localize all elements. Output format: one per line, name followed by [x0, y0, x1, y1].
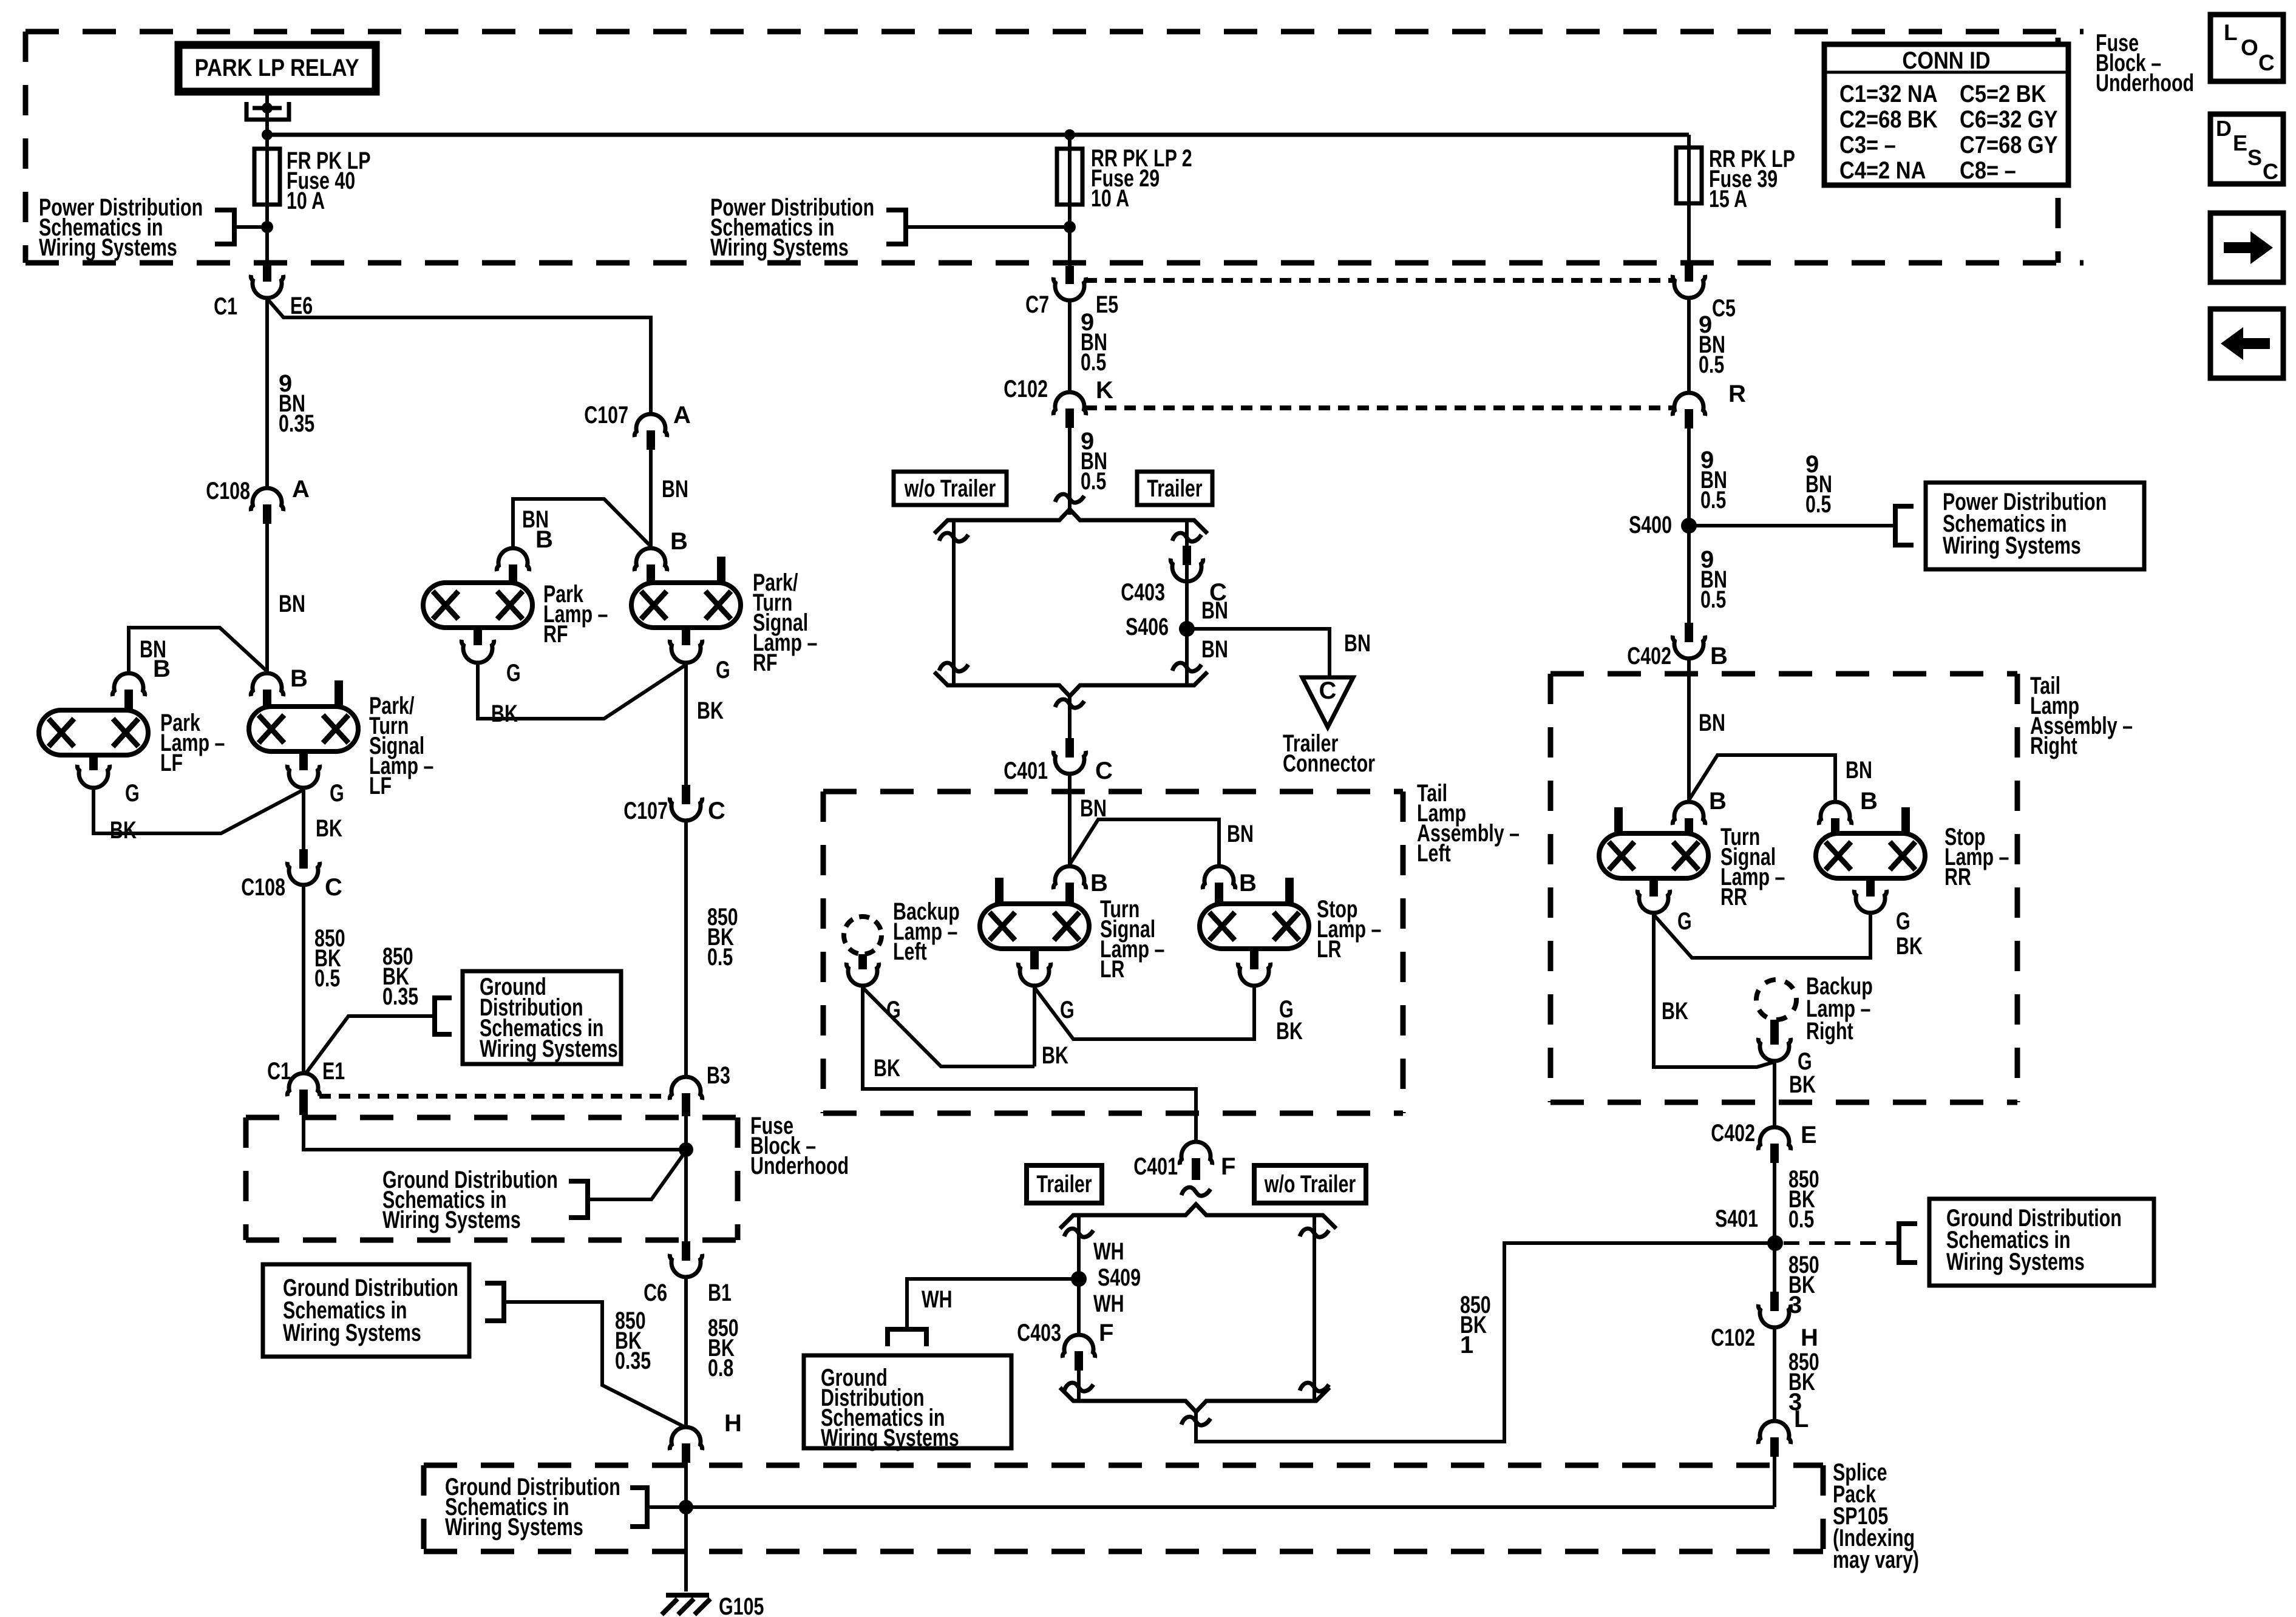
svg-text:C401: C401: [1133, 1153, 1178, 1180]
wire C6B1 down: [684, 1278, 688, 1425]
bracket to power distribution 1: [215, 210, 234, 244]
svg-text:0.35: 0.35: [279, 410, 314, 437]
svg-text:G: G: [1896, 908, 1911, 935]
svg-text:0.5: 0.5: [707, 944, 733, 971]
connector B park-turn-LF: [251, 673, 283, 707]
connector C401 F: [1180, 1142, 1212, 1180]
lamp park/turn signal LF: [249, 680, 358, 770]
label WH (below S409): [1093, 1290, 1124, 1317]
svg-text:E1: E1: [322, 1058, 345, 1085]
svg-text:Wiring Systems: Wiring Systems: [39, 234, 177, 261]
svg-text:w/o Trailer: w/o Trailer: [1264, 1171, 1356, 1198]
label C402-E: [1711, 1120, 1816, 1148]
svg-text:Wiring Systems: Wiring Systems: [480, 1036, 618, 1062]
svg-text:WH: WH: [922, 1286, 953, 1313]
label 9 BN 0.5 (below K): [1081, 428, 1107, 495]
connector C102 pin H: [1758, 1292, 1790, 1327]
label 9 BN 0.5 (below S400): [1700, 546, 1727, 613]
lamp park RF: [423, 583, 532, 645]
svg-text:A: A: [292, 476, 310, 503]
svg-text:C6=32 GY: C6=32 GY: [1960, 106, 2058, 133]
label BK (park RF): [491, 700, 518, 727]
wire C102H down: [1773, 1328, 1776, 1419]
svg-text:BK: BK: [491, 700, 518, 727]
label ground distribution 3: [382, 1167, 558, 1233]
svg-text:H: H: [724, 1410, 742, 1437]
svg-text:Left: Left: [893, 938, 927, 965]
label C403-C: [1121, 579, 1227, 606]
brace merge bottom 1: [934, 672, 1207, 696]
bracket to ground distribution box 2: [435, 998, 452, 1034]
label G (turn LR): [1060, 997, 1075, 1023]
label 850 BK 0.5 (C108-C): [314, 925, 345, 992]
wire bracket4 to H connector: [504, 1302, 686, 1428]
svg-text:BK: BK: [1276, 1018, 1303, 1045]
label splice pack SP105: [1833, 1459, 1919, 1573]
svg-text:LF: LF: [369, 773, 392, 799]
wire park-LF ground jog: [93, 790, 304, 833]
svg-text:0.5: 0.5: [1700, 586, 1726, 613]
svg-text:C5: C5: [1712, 295, 1736, 322]
label G (turn RR): [1677, 908, 1692, 935]
brace merge bottom 2: [1060, 1388, 1330, 1412]
connector G park/turn-RF: [670, 640, 702, 663]
svg-text:E6: E6: [290, 293, 313, 319]
svg-text:Wiring Systems: Wiring Systems: [821, 1425, 959, 1451]
svg-text:RR: RR: [1944, 864, 1971, 890]
svg-text:0.5: 0.5: [314, 965, 340, 992]
wire C401C down: [1068, 775, 1072, 864]
bracket to ground distribution (S401): [1899, 1224, 1917, 1263]
svg-text:B: B: [535, 526, 553, 553]
wire turn-RR G down to backup: [1654, 915, 1773, 1067]
ground distribution box (S409): [804, 1355, 1011, 1451]
connector G stop-LR: [1238, 949, 1270, 986]
svg-text:D: D: [2216, 116, 2232, 141]
icon DESC: [2210, 114, 2283, 184]
svg-text:10 A: 10 A: [287, 188, 325, 214]
node S406: [1179, 621, 1195, 637]
ground distribution box (S401): [1929, 1199, 2154, 1286]
lamp stop LR: [1200, 878, 1309, 949]
svg-text:RF: RF: [753, 649, 778, 676]
label BK (stop RR): [1896, 933, 1923, 960]
label 9 BN 0.5 (C7): [1081, 309, 1107, 376]
svg-text:BK: BK: [316, 815, 342, 842]
label S400: [1629, 512, 1672, 538]
svg-text:S406: S406: [1126, 614, 1169, 640]
label backup lamp left: [893, 898, 960, 965]
label C7-E5: [1025, 291, 1118, 318]
dashed wire S401 to bracket: [1784, 1241, 1899, 1245]
squiggle trailer-branch bottom: [1064, 1383, 1093, 1391]
label BN-B (park LF): [140, 636, 171, 682]
svg-text:B: B: [1860, 788, 1878, 815]
label G105: [719, 1593, 764, 1617]
svg-text:S: S: [2247, 145, 2262, 170]
connector C108 A: [251, 488, 283, 524]
svg-text:S409: S409: [1098, 1264, 1141, 1291]
svg-text:0.35: 0.35: [615, 1347, 651, 1374]
label BK (park/turn RF): [697, 697, 724, 724]
label turn signal lamp LR: [1100, 896, 1164, 983]
svg-text:G: G: [716, 657, 730, 683]
label C102-H: [1711, 1324, 1818, 1351]
wire park/turn-RF ground down: [684, 665, 688, 785]
svg-text:RR: RR: [1720, 884, 1747, 910]
svg-text:LF: LF: [160, 750, 183, 776]
wire backup-right ground: [1773, 1063, 1776, 1125]
svg-text:B1: B1: [708, 1280, 732, 1306]
label tail lamp assembly right: [2030, 673, 2133, 759]
relay contact symbol: [246, 102, 289, 120]
wire trailer branch (S409): [1077, 1215, 1081, 1333]
svg-text:Underhood: Underhood: [2096, 70, 2194, 97]
svg-text:10 A: 10 A: [1091, 185, 1129, 212]
wire backup-left diag to turn-G column: [863, 988, 1034, 1066]
connector C5 pin: [1673, 263, 1705, 298]
svg-text:Connector: Connector: [1283, 750, 1375, 777]
svg-text:C107: C107: [584, 402, 628, 429]
wire S409 to ground bracket: [907, 1279, 1079, 1327]
wire L to splice run: [1773, 1457, 1776, 1507]
svg-text:RF: RF: [543, 621, 568, 648]
wire BN jog to stop lamp LR: [1070, 819, 1219, 864]
svg-text:BK: BK: [1662, 998, 1688, 1025]
wire S400 to power dist bracket: [1689, 524, 1895, 527]
label G (stop LR): [1279, 996, 1294, 1023]
label B (stop RR): [1860, 788, 1878, 815]
label C107-C: [623, 798, 725, 824]
svg-text:C402: C402: [1711, 1120, 1755, 1147]
label G (park RF): [506, 660, 521, 686]
svg-text:Wiring Systems: Wiring Systems: [445, 1514, 583, 1541]
lamp backup right dashed circle: [1756, 980, 1796, 1020]
label fuse40: [287, 147, 371, 214]
svg-text:E5: E5: [1096, 291, 1118, 318]
svg-text:C403: C403: [1017, 1320, 1061, 1346]
wire C108A down: [265, 524, 269, 671]
label WH (left of S409): [922, 1286, 953, 1313]
wire C102K down: [1068, 428, 1072, 515]
label BN (below C108-A): [279, 591, 305, 617]
svg-text:C107: C107: [623, 798, 668, 824]
label fuse block underhood 2: [750, 1113, 849, 1179]
svg-text:C3= –: C3= –: [1839, 132, 1896, 158]
svg-text:B3: B3: [707, 1062, 730, 1089]
svg-text:C: C: [708, 798, 725, 824]
label turn signal lamp RR: [1720, 824, 1785, 910]
dotted line E1 to B3: [319, 1094, 670, 1099]
connector C402 pin B: [1673, 623, 1705, 659]
label G (backup left): [886, 997, 901, 1023]
connector C403 F: [1062, 1335, 1095, 1371]
svg-text:B: B: [153, 656, 171, 682]
fuse F40 FR PK LP: [254, 149, 280, 205]
wire C1 down: [265, 299, 269, 486]
squiggle wo-trailer-2 top: [1300, 1229, 1329, 1237]
connector B park-RF: [497, 548, 529, 583]
svg-text:Underhood: Underhood: [750, 1153, 849, 1179]
svg-text:C7=68 GY: C7=68 GY: [1960, 132, 2058, 158]
wire fuse40 column: [265, 135, 269, 266]
connector H: [670, 1427, 702, 1463]
label 850 BK 0.8: [708, 1315, 739, 1381]
node S400: [1681, 518, 1697, 534]
label H (left col): [724, 1410, 742, 1437]
svg-text:G: G: [1677, 908, 1692, 935]
connector C1 E1: [287, 1073, 319, 1115]
label 9 BN 0.5 (C5): [1699, 311, 1725, 378]
wire break squiggle above brace A: [1055, 494, 1084, 503]
label B (turn RR): [1709, 788, 1727, 815]
svg-text:O: O: [2241, 35, 2258, 60]
ground G105: [662, 1595, 710, 1615]
node B3 junction: [679, 1142, 693, 1157]
svg-text:C1=32 NA: C1=32 NA: [1839, 81, 1938, 107]
label BN (trailer connector): [1344, 630, 1371, 657]
lamp stop RR: [1816, 807, 1925, 878]
svg-text:C: C: [2263, 159, 2278, 184]
lamp backup left dashed circle: [844, 917, 881, 954]
label C1-E6: [214, 293, 313, 320]
dotted line C7 to C5: [1085, 278, 1673, 283]
label C5: [1712, 295, 1736, 322]
relay K1 PARK LP RELAY box: [178, 45, 376, 92]
svg-text:Wiring Systems: Wiring Systems: [382, 1207, 521, 1233]
svg-text:0.35: 0.35: [382, 983, 418, 1010]
label C401-F: [1133, 1153, 1235, 1180]
lamp turn signal RR: [1599, 807, 1708, 878]
connector C7 pin E5: [1053, 266, 1085, 300]
svg-text:w/o Trailer: w/o Trailer: [904, 475, 996, 502]
wire park/turn-LF ground down: [302, 790, 305, 849]
wire park-RF jog: [513, 499, 651, 546]
svg-text:0.5: 0.5: [1081, 468, 1106, 495]
svg-text:C: C: [325, 874, 342, 901]
svg-text:C2=68 BK: C2=68 BK: [1839, 106, 1938, 133]
wire turn-RR G to stop-RR G: [1654, 915, 1870, 958]
wire bracket6 to junction: [647, 1505, 686, 1509]
svg-text:BN: BN: [1344, 630, 1371, 657]
wire park-LF jog: [129, 628, 267, 671]
svg-text:BK: BK: [1789, 1071, 1816, 1098]
connector C108 C: [287, 849, 319, 885]
wire relay to bus: [265, 92, 269, 135]
connector C107 C: [670, 785, 702, 821]
connector C1 pin E6: [251, 263, 283, 298]
label S406: [1126, 614, 1169, 640]
squiggle branch-right top: [1172, 533, 1201, 541]
svg-text:S401: S401: [1715, 1205, 1758, 1232]
label BN (below S406): [1201, 636, 1228, 663]
wire w/o-trailer branch 2: [1313, 1215, 1316, 1401]
node fuse29-tap: [1064, 221, 1076, 233]
callout box w/o Trailer (1): [894, 472, 1007, 505]
wire park-RF ground jog: [478, 665, 686, 719]
wire C7 down: [1068, 301, 1072, 390]
svg-text:F: F: [1221, 1153, 1235, 1180]
wire bracket3 to B3 node: [588, 1151, 686, 1199]
label ground distribution 6: [445, 1474, 620, 1541]
svg-text:PARK LP RELAY: PARK LP RELAY: [195, 55, 359, 81]
ground distribution box 4 (H): [263, 1264, 469, 1357]
svg-text:0.8: 0.8: [708, 1355, 733, 1381]
label C108-C: [241, 874, 342, 901]
svg-text:BN: BN: [1227, 821, 1254, 847]
svg-text:LR: LR: [1317, 936, 1342, 963]
node bus-fuse29: [1064, 129, 1075, 140]
svg-text:C108: C108: [206, 478, 250, 504]
svg-text:C1: C1: [267, 1058, 291, 1085]
label C108-A: [206, 476, 310, 504]
svg-text:G: G: [330, 780, 344, 807]
wire backup-left ground run: [863, 988, 1196, 1140]
squiggle wo-trailer-2 bottom: [1300, 1383, 1329, 1391]
svg-text:0.5: 0.5: [1805, 491, 1831, 518]
splice pack dashed outline: [424, 1465, 1823, 1551]
label park lamp RF: [543, 581, 608, 648]
connector G turn-RR: [1637, 878, 1669, 913]
label 850 BK 0.35 (left): [615, 1307, 651, 1374]
squiggle below brace D: [1181, 1417, 1211, 1425]
label 850 BK 1: [1460, 1292, 1491, 1358]
label B (park/turn RF): [670, 528, 688, 555]
wire C107C down: [684, 821, 688, 1075]
svg-text:E: E: [2233, 131, 2247, 155]
svg-text:A: A: [673, 402, 691, 429]
wire bus corner to fuse39: [1687, 135, 1691, 266]
svg-text:BK: BK: [1042, 1042, 1068, 1069]
svg-text:1: 1: [1460, 1332, 1473, 1358]
label BN (below C107-A): [662, 476, 688, 503]
fuse F39 RR PK LP: [1676, 147, 1702, 203]
tail lamp assembly right dashed outline: [1550, 674, 2017, 1102]
svg-text:BK: BK: [1896, 933, 1923, 960]
connector R (C102): [1673, 393, 1705, 429]
wire bracket1 to fuse40 column: [234, 225, 267, 229]
label G (stop RR): [1896, 908, 1911, 935]
label 850 BK 3 (above C102-H): [1788, 1252, 1819, 1318]
connector B3: [670, 1077, 702, 1116]
callout box w/o Trailer (2): [1254, 1165, 1366, 1203]
svg-text:C102: C102: [1711, 1324, 1755, 1351]
svg-text:K: K: [1096, 377, 1113, 404]
label Trailer Connector: [1283, 730, 1375, 777]
svg-text:15 A: 15 A: [1709, 186, 1747, 212]
wire branch left (w/o trailer): [952, 520, 956, 685]
label L: [1794, 1406, 1809, 1432]
wire bus B+ horizontal: [267, 133, 1689, 137]
squiggle below C401-F: [1181, 1187, 1211, 1196]
svg-text:BN: BN: [1699, 710, 1725, 736]
label park lamp LF: [160, 710, 225, 776]
label B3: [707, 1062, 730, 1089]
label B (stop LR): [1239, 870, 1257, 897]
bracket down to ground distribution box: [888, 1329, 926, 1346]
wire E1 down to junction: [304, 1115, 686, 1150]
label fuse39: [1709, 146, 1795, 212]
svg-text:C402: C402: [1627, 643, 1671, 670]
connector C102 pin K: [1053, 392, 1085, 428]
node fuse40-tap: [261, 221, 273, 233]
squiggle trailer-branch top: [1064, 1229, 1093, 1237]
squiggle branch-left top: [939, 533, 968, 541]
label park/turn signal lamp LF: [369, 693, 433, 799]
svg-text:BN: BN: [1201, 597, 1228, 624]
power distribution box (S400): [1926, 483, 2144, 569]
svg-text:C6: C6: [644, 1280, 667, 1306]
svg-text:0.5: 0.5: [1699, 351, 1724, 378]
label BN (below C401-C): [1080, 795, 1107, 822]
svg-text:CONN ID: CONN ID: [1902, 47, 1990, 74]
label 9 BN 0.35 (C1): [279, 370, 314, 437]
label C402-B: [1627, 643, 1728, 670]
svg-text:BN: BN: [279, 591, 305, 617]
brace split top (w/o trailer vs trailer): [934, 509, 1207, 534]
svg-text:G: G: [506, 660, 521, 686]
label BK (stop LR): [1276, 1018, 1303, 1045]
svg-text:BN: BN: [1846, 757, 1872, 784]
squiggle below brace B: [1055, 699, 1084, 708]
svg-text:C108: C108: [241, 874, 285, 901]
wire brace D to splice run: [1196, 1243, 1775, 1442]
squiggle branch-left bottom: [939, 663, 968, 671]
svg-text:BN: BN: [662, 476, 688, 503]
svg-text:Wiring Systems: Wiring Systems: [1946, 1249, 2085, 1275]
lamp turn signal LR: [980, 878, 1089, 949]
svg-text:WH: WH: [1093, 1290, 1124, 1317]
label BN (below C403-C): [1201, 597, 1228, 624]
wire H down to ground: [684, 1463, 688, 1592]
connector G park-RF: [461, 640, 494, 663]
svg-text:B: B: [670, 528, 688, 555]
svg-text:BN: BN: [1201, 636, 1228, 663]
connector B turn-signal-LR: [1053, 866, 1085, 904]
connector L: [1758, 1421, 1790, 1457]
svg-text:C: C: [2258, 50, 2275, 75]
fuse block underhood 2 dashed outline: [246, 1117, 738, 1240]
connector G stop-RR: [1854, 878, 1886, 913]
svg-text:B: B: [1090, 870, 1108, 897]
svg-text:Wiring Systems: Wiring Systems: [710, 234, 849, 261]
node S401: [1767, 1235, 1783, 1251]
connector B turn-RR: [1673, 802, 1705, 833]
label 850 BK 0.5: [1788, 1166, 1819, 1233]
label 850 BK 0.35: [382, 943, 418, 1010]
label park/turn signal lamp RF: [753, 569, 817, 676]
label stop lamp RR: [1944, 824, 2009, 890]
svg-text:C102: C102: [1004, 376, 1048, 402]
svg-text:L: L: [2224, 20, 2238, 45]
label B (park/turn LF): [290, 665, 308, 692]
svg-text:B: B: [1239, 870, 1257, 897]
wire brace B to C401: [1068, 696, 1072, 738]
wire E6 to C107: [267, 299, 651, 412]
label WH (above S409): [1093, 1238, 1124, 1265]
wire C402E down: [1773, 1163, 1776, 1292]
connector G park-LF: [77, 765, 109, 788]
label BK (park/turn LF): [316, 815, 342, 842]
node ground junction: [679, 1500, 693, 1514]
bracket to power distribution 3: [1895, 506, 1914, 545]
svg-text:H: H: [1801, 1324, 1818, 1351]
wire C402B down: [1687, 659, 1691, 801]
label G (park/turn LF): [330, 780, 344, 807]
wire BN jog to stop lamp RR: [1689, 755, 1835, 800]
tail lamp assembly left dashed outline: [823, 792, 1403, 1113]
svg-text:C: C: [1095, 758, 1113, 784]
